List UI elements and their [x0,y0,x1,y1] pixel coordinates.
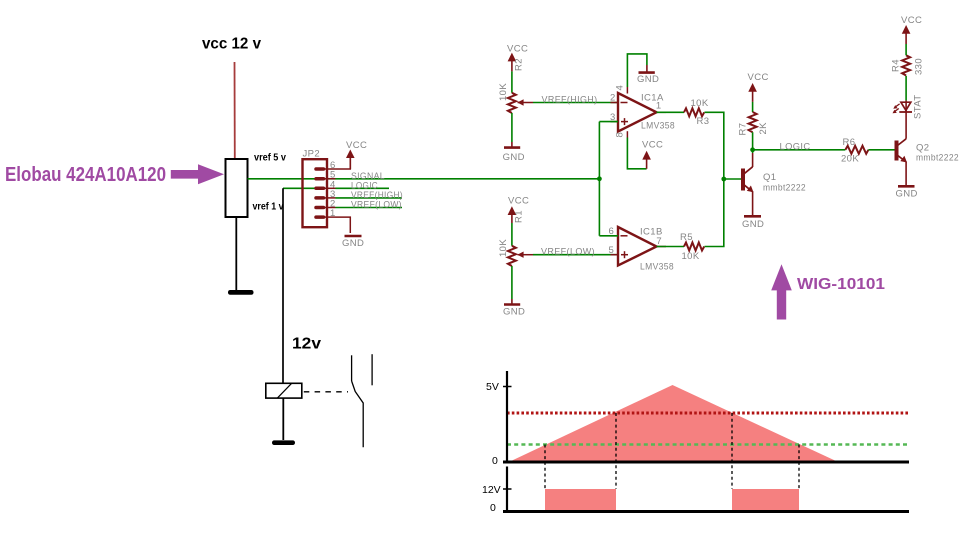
op-amp IC1B [609,226,675,273]
ground GND (R2) [503,148,525,163]
svg-text:0: 0 [492,455,498,467]
svg-text:12v: 12v [292,335,321,352]
svg-text:vref 5 v: vref 5 v [254,152,286,164]
wire VCC12 to sensor [234,62,236,159]
svg-text:330: 330 [914,58,925,75]
graph upper y-axis [506,371,508,463]
svg-text:1: 1 [330,208,336,219]
svg-text:GND: GND [742,219,764,230]
resistor R6 20K [841,137,868,165]
node comparator bus junction [721,177,726,182]
wire dashed relay to switch [304,391,348,393]
ground relay [272,440,295,445]
wire IC1A out to R3 [657,111,685,113]
label 12V [482,484,501,496]
svg-text:IC1A: IC1A [641,93,664,104]
wire bus to Q1 base [724,178,741,180]
graph dashed marker x1 [544,445,546,490]
svg-text:GND: GND [637,74,659,85]
wire VCC to R2 [511,71,513,92]
svg-text:WIG-10101: WIG-10101 [797,276,885,293]
wire R1 to GND [511,266,513,305]
svg-text:2K: 2K [758,122,769,135]
label 0 (lower) [490,502,496,514]
op-amp IC1A [610,85,675,138]
switch S1 [352,354,373,447]
wire R2 to GND [511,113,513,148]
graph lower y-axis [506,467,508,514]
graph threshold green dashed [507,443,909,445]
graph threshold red dotted [507,412,909,415]
potentiometer R1 10K [498,210,525,266]
svg-text:R3: R3 [697,116,710,127]
wire relay to ground [282,398,284,440]
svg-text:VCC: VCC [508,196,529,207]
ground GND (Q2) [896,186,918,199]
svg-text:4: 4 [615,85,626,91]
resistor R3 10K [684,98,709,127]
wire IC1A pin8 to VCC [627,138,646,169]
sensor body (Elobau) [226,159,248,217]
graph dashed marker x4 [798,445,800,490]
label vref 5 v [254,152,286,164]
node signal junction [597,176,602,181]
svg-text:VREF(LOW): VREF(LOW) [351,200,402,211]
wire VCC to R1 [511,223,513,246]
transistor Q1 mmbt2222 [743,167,806,215]
LED STAT [893,95,924,119]
connector JP2 [303,149,336,228]
supply VCC (R4) [901,15,922,44]
svg-text:2: 2 [610,93,616,104]
graph lower x-axis [503,510,909,513]
svg-text:5: 5 [609,245,615,256]
wire JP2 pin1 to GND [336,217,351,233]
svg-text:GND: GND [503,152,525,163]
svg-text:20K: 20K [841,154,859,165]
svg-text:10K: 10K [498,239,509,257]
svg-text:vcc 12 v: vcc 12 v [202,36,261,53]
wire LED to R4 [905,76,907,101]
svg-text:8: 8 [615,132,626,138]
svg-text:VREF(HIGH): VREF(HIGH) [542,94,598,105]
supply VCC (R7) [748,72,769,102]
svg-text:10K: 10K [682,251,700,262]
label WIG-10101 [797,276,885,293]
potentiometer R2 10K [498,58,525,113]
ground sensor [228,290,254,295]
node LOGIC junction [750,147,755,152]
svg-text:Q1: Q1 [763,172,776,183]
svg-text:VCC: VCC [748,72,769,83]
resistor R7 2K [738,112,770,136]
wire R6 to Q2 base [868,149,894,151]
supply VCC (R2) [507,44,528,72]
resistor R4 330 [891,55,925,75]
wire R7 to Q1 collector [752,132,754,167]
transistor Q2 mmbt2222 [897,139,960,185]
wire JP2 pin6 to VCC [336,157,351,169]
svg-text:R4: R4 [891,59,902,72]
graph triangle waveform [511,385,836,461]
svg-text:GND: GND [503,307,525,318]
supply VCC (JP2) [346,140,367,169]
wire VREF(HIGH) to IC1A pin2 [518,94,619,105]
wire R4 to VCC [905,44,907,55]
arrow WIG pointer [771,264,792,319]
ground GND (Q1) [742,216,764,230]
ground GND (JP2) [342,236,364,249]
svg-text:GND: GND [342,238,364,249]
svg-text:5V: 5V [486,381,499,393]
label Elobau 424A10A120 [5,163,166,186]
svg-text:LMV358: LMV358 [640,262,674,273]
label 5V [486,381,499,393]
svg-text:VCC: VCC [901,15,922,26]
net label VREF(LOW) (JP2) [336,200,403,211]
svg-text:7: 7 [656,236,662,247]
wire Q2 collector to LED [905,112,907,139]
wire LOGIC drop to relay [282,188,284,383]
wire R5 to bus [705,179,724,247]
wire VREF(LOW) to IC1B pin5 [518,247,619,258]
arrow Elobau pointer [171,164,224,184]
svg-text:VCC: VCC [346,140,367,151]
net label VREF(HIGH) (JP2) [336,190,404,201]
supply VCC (IC1A pin8) [642,140,663,169]
graph 5V tick [503,386,512,388]
svg-text:R2: R2 [514,58,525,71]
graph pulse rect 1 [545,489,616,511]
supply VCC (R1) [508,196,530,224]
svg-text:R1: R1 [514,210,525,223]
wire IC1A pin4 to GND [627,54,647,87]
ground GND (IC1A pin4) [637,65,659,85]
svg-text:VCC: VCC [642,140,663,151]
label vcc 12 v [202,36,261,53]
wire LOGIC to R6 [753,142,846,153]
wire IC1A pin3 from junction [599,121,618,123]
wire VCC to R7 [752,102,754,112]
svg-text:GND: GND [896,189,918,200]
graph pulse rect 2 [732,489,799,511]
svg-text:vref 1 v: vref 1 v [253,201,284,213]
wire sensor to ground [235,217,237,290]
resistor R5 10K [680,232,704,262]
svg-text:0: 0 [490,502,496,514]
label vref 1 v [253,201,284,213]
svg-text:12V: 12V [482,484,501,496]
graph dashed marker x2 [615,413,617,489]
wire signal junction vertical [598,122,600,236]
svg-text:JP2: JP2 [303,149,321,160]
graph upper x-axis [503,461,909,464]
svg-text:mmbt2222: mmbt2222 [916,153,959,164]
ground GND (R1) [503,305,525,318]
wire IC1B out to R5 [657,246,685,248]
svg-text:STAT: STAT [913,95,924,119]
svg-text:LOGIC: LOGIC [780,142,811,153]
svg-text:LMV358: LMV358 [641,121,675,132]
svg-text:Elobau 424A10A120: Elobau 424A10A120 [5,163,166,186]
graph 12V tick [503,488,512,490]
svg-text:10K: 10K [691,98,709,109]
svg-text:IC1B: IC1B [640,227,663,238]
label 12v [292,335,321,352]
relay coil K1 [266,383,302,398]
graph dashed marker x3 [731,413,733,489]
wire R3 to bus [705,112,724,179]
net label LOGIC (JP2) [351,181,378,192]
net label SIGNAL [351,171,385,182]
wire IC1B pin6 from junction [599,235,618,237]
svg-text:mmbt2222: mmbt2222 [763,183,806,194]
svg-text:R7: R7 [738,123,749,136]
wire LOGIC horizontal [283,187,389,189]
label 0 (upper) [492,455,498,467]
svg-text:VREF(LOW): VREF(LOW) [541,247,595,258]
wire SIGNAL [248,178,600,180]
svg-text:VCC: VCC [507,44,528,55]
